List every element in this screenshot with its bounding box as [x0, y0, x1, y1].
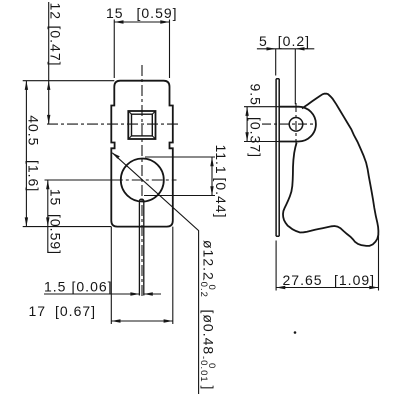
switch body outline (front view)	[111, 81, 173, 227]
dim 1.5 arrows	[130, 292, 152, 295]
leader arrowhead	[112, 153, 120, 159]
dim 12 arrows	[47, 81, 50, 124]
svg-text:[0.37]: [0.37]	[248, 117, 264, 158]
dim 12 text rotated	[48, 3, 64, 67]
dim 11.1 text rotated	[213, 145, 229, 219]
svg-text:17: 17	[29, 303, 47, 319]
svg-text:15: 15	[48, 189, 64, 207]
side view: hole vertical centerline	[295, 103, 297, 146]
svg-text:[0.59]: [0.59]	[48, 214, 64, 255]
dim 15 top: arrows	[114, 20, 169, 23]
side view: cover profile	[283, 94, 378, 246]
bottom edge extension	[23, 226, 112, 228]
dim 15 lower-left: dimension line	[47, 180, 49, 253]
dim 9.5 arrows	[245, 107, 248, 142]
svg-text:15: 15	[106, 5, 124, 21]
lever pins	[139, 199, 143, 295]
svg-text:[0.44]: [0.44]	[213, 178, 229, 219]
dim 9.5 text rotated	[248, 84, 264, 159]
svg-text:27.65: 27.65	[283, 272, 323, 288]
svg-text:[ø0.48: [ø0.48	[201, 310, 217, 356]
toggle circle	[121, 159, 164, 202]
dim 5 text	[259, 33, 310, 49]
dim 15 top: extension lines	[114, 20, 169, 79]
dim 17 arrows	[111, 319, 173, 322]
svg-text:[0.2]: [0.2]	[278, 33, 310, 49]
dim 15 top: dimension line	[114, 21, 169, 23]
vertical centerline	[141, 65, 143, 296]
horizontal centerline circle	[112, 179, 177, 181]
svg-text:1.5: 1.5	[44, 279, 66, 295]
svg-text:11.1: 11.1	[213, 145, 229, 175]
top edge extension	[23, 80, 115, 82]
dim 27.65: extension lines	[276, 234, 378, 291]
horizontal centerline square	[47, 123, 178, 125]
svg-text:-0.01: -0.01	[198, 356, 209, 383]
dim 11.1 arrows	[210, 157, 213, 196]
dim 17 bottom: extension lines	[111, 227, 173, 324]
svg-text:[0.06]: [0.06]	[72, 279, 113, 295]
svg-text:[1.6]: [1.6]	[25, 160, 41, 192]
svg-text:[0.67]: [0.67]	[55, 303, 96, 319]
svg-text:[0.47]: [0.47]	[48, 26, 64, 67]
svg-text:12: 12	[48, 3, 64, 21]
dim 27.65: dimension line	[276, 287, 378, 289]
side view: pivot boss	[279, 107, 316, 142]
dim 17: dimension line	[111, 320, 173, 322]
dim 40.5 text rotated	[25, 115, 41, 192]
square hole inner	[132, 114, 153, 136]
leader line diameter	[112, 153, 198, 394]
dim 40.5 left: dimension line	[25, 81, 27, 227]
dim 15 top: text	[106, 5, 178, 21]
svg-text:-0.2: -0.2	[198, 278, 209, 298]
dim 9.5: extension lines	[244, 107, 279, 142]
dim 15 lower-left text rotated	[48, 189, 64, 255]
dim 15 lower-left arrows	[46, 180, 49, 227]
dim 17 text	[29, 303, 97, 319]
dim 27.65 arrows	[276, 286, 378, 289]
stray dot	[294, 331, 297, 334]
svg-text:40.5: 40.5	[25, 115, 41, 146]
dim 9.5: dimension line	[246, 107, 248, 142]
svg-text:9.5: 9.5	[248, 84, 264, 106]
circle center extension left	[45, 179, 112, 181]
side view: hole horizontal centerline	[262, 123, 314, 125]
svg-text:[0.59]: [0.59]	[137, 5, 178, 21]
square hole chamfer ticks	[128, 111, 155, 139]
svg-text:ø12.2: ø12.2	[201, 240, 217, 281]
dim 5 top: extension lines	[276, 49, 296, 105]
dim 40.5 arrows	[25, 81, 28, 227]
dim 27.65 text	[283, 272, 376, 288]
svg-text:5: 5	[259, 33, 268, 49]
square hole outer	[128, 111, 155, 139]
side view: pivot hole	[289, 118, 303, 132]
dim 11.1: dimension line	[211, 157, 213, 196]
dim 1.5: dimension line	[44, 293, 161, 295]
dim 12 left: dimension line	[48, 2, 50, 124]
dim 1.5 text	[44, 279, 113, 295]
svg-text:[1.09]: [1.09]	[334, 272, 375, 288]
dim 11.1: extension lines	[144, 157, 215, 196]
leader text rotated	[198, 240, 217, 390]
dim 5 arrows	[267, 47, 305, 50]
dim 5: dimension line	[257, 48, 314, 50]
svg-text:]: ]	[201, 386, 217, 391]
side view: mounting plate	[276, 79, 279, 236]
